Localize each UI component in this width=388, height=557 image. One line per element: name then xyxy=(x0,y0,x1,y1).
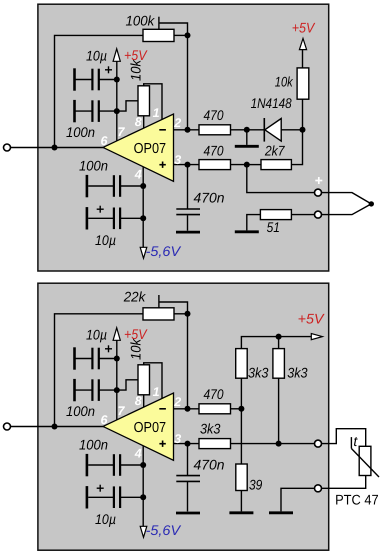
resistor 2k7 xyxy=(261,160,291,170)
capacitor C3 100n plates xyxy=(113,175,115,197)
capacitor C5 470n plates xyxy=(176,208,200,210)
svg-text:100n: 100n xyxy=(79,157,108,173)
wire 22k top link to right node xyxy=(159,302,188,314)
wire 10k pullup column xyxy=(302,50,304,68)
op-amp U1 minus mark xyxy=(159,129,166,131)
svg-text:OP07: OP07 xyxy=(134,420,167,436)
resistor 3k3 horizontal (pin3 row) xyxy=(199,439,231,449)
svg-text:10k: 10k xyxy=(127,338,143,360)
wire 100k top stub xyxy=(158,17,160,30)
junction dot C2/wiper at +5V rail xyxy=(114,108,120,114)
terminal circle output left xyxy=(4,144,11,151)
wire twisted pair from terminals to junction xyxy=(321,193,372,204)
+5V supply arrow (pull-up) xyxy=(299,38,306,49)
wire 10k pot wiper to +5V rail xyxy=(117,101,138,111)
wire pin4 column bottom xyxy=(142,445,144,526)
svg-text:7: 7 xyxy=(118,125,126,139)
wire feedback loop left/top (node OUT2 to 22k left) xyxy=(55,314,144,427)
svg-text:470: 470 xyxy=(204,107,224,123)
ground bar under node D xyxy=(235,145,259,148)
resistor 3k3 vertical right xyxy=(273,349,285,379)
capacitor C1 10u ground bar xyxy=(73,68,76,90)
svg-text:OP07: OP07 xyxy=(134,141,167,157)
diode 1N4148 xyxy=(264,118,281,142)
resistor 470 (bottom inverting row) xyxy=(199,404,231,414)
svg-text:8: 8 xyxy=(135,394,142,408)
svg-text:3k3: 3k3 xyxy=(287,365,308,381)
wire diode leads xyxy=(247,129,264,131)
wire 100n C2 leads xyxy=(75,110,93,112)
junction dot C2b/wiper at +5V rail xyxy=(114,387,120,393)
+5V supply arrow (left rail bottom) xyxy=(113,328,120,341)
node J black terminal dot xyxy=(369,201,374,206)
wire 22k right lead xyxy=(174,313,188,315)
node G junction dot xyxy=(244,162,250,168)
op-amp U1 plus mark xyxy=(159,162,165,168)
svg-text:10µ: 10µ xyxy=(95,511,116,527)
wire 22k top stub xyxy=(158,295,160,308)
svg-text:3: 3 xyxy=(174,153,181,167)
wire 10k pot top to pin 1 xyxy=(144,84,162,120)
svg-text:7: 7 xyxy=(118,404,126,418)
resistor 3k3 vertical left xyxy=(236,349,248,379)
resistor 10k pull-up xyxy=(297,68,309,99)
capacitor C1 10u plates xyxy=(91,69,93,91)
resistor 22k xyxy=(143,308,174,320)
svg-text:100k: 100k xyxy=(126,13,156,29)
svg-text:470: 470 xyxy=(204,386,224,402)
svg-text:100n: 100n xyxy=(66,403,95,419)
wire 10k pot2 bottom to pin 8 xyxy=(143,395,145,408)
wire output row top circuit xyxy=(10,147,104,149)
op-amp U2 minus mark xyxy=(159,408,166,410)
cap C1 plus sign xyxy=(105,66,112,73)
wire 470n C5 stubs xyxy=(187,165,189,209)
svg-text:10µ: 10µ xyxy=(95,232,116,248)
wire 2k7 left lead xyxy=(247,164,261,166)
svg-text:10k: 10k xyxy=(127,59,143,81)
capacitor C3b 100n plates xyxy=(113,454,115,476)
wire node E down to 2k7 right xyxy=(291,130,302,165)
resistor 100k xyxy=(143,29,174,41)
thermistor PTC diagonal mark xyxy=(351,437,379,477)
wire 51 left lead and ground stub xyxy=(247,215,261,231)
terminal circle I xyxy=(315,211,322,218)
ground bar under 39 xyxy=(229,511,253,514)
svg-text:8: 8 xyxy=(135,115,142,129)
terminal circle output left bottom xyxy=(4,423,11,430)
svg-text:3: 3 xyxy=(174,432,181,446)
resistor 470 (inverting input row) xyxy=(199,125,231,135)
capacitor C4 10u ground bar xyxy=(86,207,89,229)
wire 470 R2 right lead xyxy=(231,129,247,131)
node B junction dot (100k right) xyxy=(185,32,191,38)
node C2 junction dot (pin2 bottom) xyxy=(185,406,191,412)
node OUT junction dot xyxy=(52,145,58,151)
wire 10u C1b leads xyxy=(75,358,93,360)
+5V supply arrow right-pointing xyxy=(311,334,322,340)
svg-text:+5V: +5V xyxy=(298,310,325,326)
wire +5V rail left column xyxy=(116,61,118,140)
svg-text:-5,6V: -5,6V xyxy=(146,522,182,538)
capacitor C4b 10u ground bar xyxy=(86,486,89,508)
thermistor PTC 47 body xyxy=(359,446,371,475)
cap C1b plus sign xyxy=(105,345,112,352)
wire terminal T2 ground return xyxy=(281,488,315,511)
node C junction dot (pin2) xyxy=(185,127,191,133)
node B2 junction dot (22k right) xyxy=(185,311,191,317)
resistor 10k offset trimmer xyxy=(138,86,150,116)
capacitor C5b 470n plates xyxy=(176,475,200,477)
op-amp U2 plus mark xyxy=(159,441,165,447)
wire 100k right lead xyxy=(174,34,188,36)
wire 39 ground stub xyxy=(240,491,242,512)
wire feedback vertical to inverting input xyxy=(187,35,189,129)
wire 100n C3b leads xyxy=(88,464,114,466)
wire output row bottom circuit xyxy=(10,426,104,428)
wire 10u C1 leads xyxy=(75,79,93,81)
svg-text:10k: 10k xyxy=(275,73,294,89)
resistor 51 xyxy=(260,210,291,220)
terminal circle H (+ output) xyxy=(315,189,322,196)
junction dot C1b at +5V rail xyxy=(114,356,120,362)
wire feedback loop left/top (node OUT to 100k left) xyxy=(55,35,144,147)
svg-text:1N4148: 1N4148 xyxy=(251,95,292,111)
ground bar under C5 470n xyxy=(176,231,200,234)
resistor 470 (non-inverting input row) xyxy=(199,160,231,170)
svg-text:1: 1 xyxy=(153,385,160,399)
resistor 39 xyxy=(236,464,247,491)
wire 10k pot bottom to pin 8 xyxy=(143,116,145,129)
junction dot C4b at pin4 rail xyxy=(140,494,146,500)
capacitor C2 100n plates xyxy=(91,100,93,122)
svg-text:3k3: 3k3 xyxy=(200,421,221,437)
wire 470 right lead to node K xyxy=(231,408,242,410)
wire pin3 lead bottom xyxy=(173,443,199,445)
terminal circle T1 xyxy=(315,440,322,447)
capacitor C2b 100n ground bar xyxy=(73,379,76,401)
wire feedback vertical to inverting input 2 xyxy=(187,314,189,409)
node E junction dot (diode/10k/2k7) xyxy=(300,127,306,133)
svg-text:-5,6V: -5,6V xyxy=(146,243,182,259)
wire 100k top link to right node xyxy=(159,23,188,35)
wire pin4 column xyxy=(142,166,144,247)
capacitor C1b 10u ground bar xyxy=(73,347,76,369)
svg-text:3k3: 3k3 xyxy=(248,365,269,381)
terminal circle T2 xyxy=(315,485,322,492)
resistor 10k offset trimmer bottom xyxy=(138,365,150,395)
svg-text:100n: 100n xyxy=(79,436,108,452)
wire 51 right lead to terminal xyxy=(291,214,315,216)
svg-text:PTC 47: PTC 47 xyxy=(335,491,379,507)
wire 3k3 right column top lead xyxy=(278,337,280,349)
svg-text:10µ: 10µ xyxy=(86,48,107,64)
junction dot C4 at pin4 rail xyxy=(140,215,146,221)
wire pin2 lead xyxy=(173,129,199,131)
capacitor C2 100n ground bar xyxy=(73,100,76,122)
panel 2 (bottom circuit background) xyxy=(38,283,329,550)
-5,6V supply arrow xyxy=(140,247,147,258)
wire node G down and right to output terminal xyxy=(247,165,315,193)
wire 10k pot2 top to pin 1 xyxy=(144,363,162,399)
junction dot C3 at pin4 rail xyxy=(140,183,146,189)
svg-text:2k7: 2k7 xyxy=(264,142,286,158)
op-amp U1 OP07 xyxy=(103,114,174,181)
capacitor C3 100n ground bar xyxy=(86,175,89,197)
+5V supply arrow (left rail) xyxy=(113,49,120,62)
svg-text:4: 4 xyxy=(134,167,142,181)
svg-text:39: 39 xyxy=(249,477,262,493)
junction dot C3b at pin4 rail xyxy=(140,462,146,468)
svg-text:470: 470 xyxy=(204,143,224,159)
svg-text:6: 6 xyxy=(101,413,109,427)
wire +5V rail left column bottom xyxy=(116,340,118,419)
wire ground stub at node D xyxy=(246,130,248,145)
svg-text:470n: 470n xyxy=(194,189,225,205)
wire PTC bottom to terminal T2 xyxy=(321,476,366,489)
node G2 junction dot xyxy=(276,441,282,447)
panel 1 (top circuit background) xyxy=(38,4,329,271)
wire pin2 lead bottom xyxy=(173,408,199,410)
svg-text:22k: 22k xyxy=(123,289,147,305)
svg-text:100n: 100n xyxy=(66,124,95,140)
wire 3k3 left column through node K to 39 xyxy=(240,378,242,464)
op-amp U2 OP07 xyxy=(103,393,174,460)
svg-text:2: 2 xyxy=(173,395,181,409)
wire 10u C4b leads xyxy=(88,496,114,498)
node F junction dot (pin3) xyxy=(185,162,191,168)
cap C4 plus sign xyxy=(97,206,104,213)
wire 470 R3 right lead xyxy=(231,164,247,166)
junction dot on +5V rail xyxy=(276,334,282,340)
wire pin3 lead xyxy=(173,164,199,166)
wire terminal T1 to PTC top xyxy=(321,429,366,447)
capacitor C1b 10u plates xyxy=(91,348,93,370)
ground bar of PTC return xyxy=(269,511,293,514)
wire 100n C3 leads xyxy=(88,185,114,187)
white plus mark above terminal H xyxy=(315,177,322,184)
svg-text:4: 4 xyxy=(134,446,142,460)
wire 3k3 right column bottom lead xyxy=(278,378,280,443)
capacitor C4 10u plates xyxy=(113,208,115,230)
ground bar under C5b 470n xyxy=(176,512,200,515)
svg-text:2: 2 xyxy=(173,116,181,130)
wire +5V rail horizontal bottom circuit xyxy=(241,337,311,349)
node D junction dot xyxy=(244,127,250,133)
wire 470n C5b stubs xyxy=(187,444,189,476)
node F2 junction dot (pin3 bottom) xyxy=(185,441,191,447)
-5,6V supply arrow bottom xyxy=(140,526,147,537)
svg-text:51: 51 xyxy=(267,219,280,235)
wire 10k pot2 wiper to +5V rail xyxy=(117,380,138,390)
svg-text:1: 1 xyxy=(153,106,160,120)
node K junction dot xyxy=(238,406,244,412)
cap C4b plus sign xyxy=(97,485,104,492)
svg-text:6: 6 xyxy=(101,134,109,148)
wire 100n C2b leads xyxy=(75,389,93,391)
node OUT2 junction dot xyxy=(52,424,58,430)
capacitor C4b 10u plates xyxy=(113,486,115,508)
svg-text:+5V: +5V xyxy=(292,19,316,35)
capacitor C3b 100n ground bar xyxy=(86,454,89,476)
svg-text:10µ: 10µ xyxy=(86,327,107,343)
wire pin3 row to terminal T1 xyxy=(231,443,316,445)
svg-text:470n: 470n xyxy=(194,457,225,473)
ground bar under 51 xyxy=(235,230,259,233)
junction dot C1 at +5V rail xyxy=(114,77,120,83)
capacitor C2b 100n plates xyxy=(91,379,93,401)
wire 10u C4 leads xyxy=(88,217,114,219)
